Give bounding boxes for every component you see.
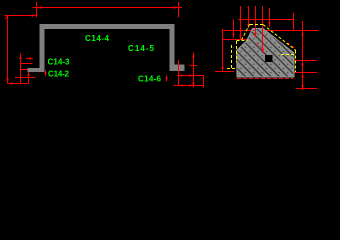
svg-text:C14-5: C14-5 <box>128 44 155 53</box>
svg-text:C14-2: C14-2 <box>48 70 70 79</box>
svg-text:C14-6: C14-6 <box>138 75 162 84</box>
svg-text:C14-4: C14-4 <box>85 34 110 43</box>
svg-text:C14-3: C14-3 <box>48 58 71 67</box>
